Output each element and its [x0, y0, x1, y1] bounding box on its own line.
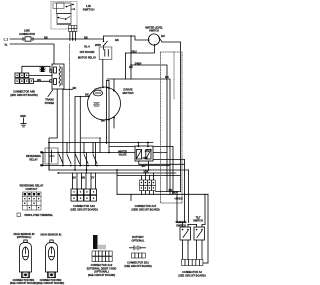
relay contact K2 [67, 155, 71, 164]
svg-text:24V: 24V [145, 149, 150, 153]
wire service switch lead 2 [187, 240, 189, 260]
svg-text:BK: BK [85, 93, 89, 97]
svg-text:(OPTIONAL): (OPTIONAL) [17, 236, 32, 239]
lid switch contacts [57, 3, 75, 24]
svg-text:(SEE CIRCUIT BOARD): (SEE CIRCUIT BOARD) [88, 274, 116, 277]
wire to service switch [184, 160, 186, 223]
svg-text:(SIDE CIRCUIT BOARD): (SIDE CIRCUIT BOARD) [131, 208, 159, 211]
svg-text:GY: GY [91, 176, 95, 180]
wire mesh vertical x84 [83, 143, 85, 153]
svg-text:L1: L1 [4, 37, 9, 42]
wire to board right [110, 146, 173, 148]
transformer leads down [49, 89, 57, 170]
svg-text:=INSULATED TERMINAL: =INSULATED TERMINAL [24, 214, 54, 217]
wire tilt switch lead 2 [201, 240, 203, 260]
rl-6 relay coil dashed box [99, 47, 112, 60]
junction dots mesh [48, 142, 110, 174]
svg-text:(SEE CIRCUIT BOARD): (SEE CIRCUIT BOARD) [70, 208, 98, 211]
svg-text:SWITCH: SWITCH [83, 8, 95, 12]
rotated text bar AA2 [93, 235, 98, 249]
motor bottom leads [113, 118, 115, 128]
svg-text:BU: BU [142, 164, 146, 168]
svg-text:BU: BU [161, 34, 165, 38]
wire bus y170 [49, 169, 189, 171]
svg-text:HIGH SENSOR #1: HIGH SENSOR #1 [41, 233, 63, 236]
relay contact K5 [93, 155, 97, 164]
svg-text:RL-6: RL-6 [84, 46, 90, 49]
tilt switch box [194, 227, 205, 240]
water valve [135, 146, 153, 161]
lid switch inner dashed box [53, 3, 64, 9]
lid switch connector block [69, 26, 77, 32]
wire +5VDC to right edge [117, 193, 208, 195]
wire y79 [107, 79, 170, 194]
reversing relay dashed box [45, 148, 58, 164]
svg-text:WDG: WDG [94, 106, 99, 108]
wire AA3 pin 5 [90, 173, 92, 189]
svg-text:BK: BK [44, 36, 48, 40]
tube sensor 2 [46, 240, 58, 278]
wire relay contact bus top [43, 152, 167, 154]
connector A-M wires [22, 66, 52, 73]
svg-text:+5VDC: +5VDC [174, 196, 183, 200]
wire wls bottom [126, 45, 155, 53]
wire AA3 pin 3 [81, 173, 83, 189]
battery symbol [130, 246, 146, 250]
lid switch pin stubs [69, 32, 71, 41]
lid switch assembly dotted box [51, 2, 77, 30]
connector AA2 block [92, 251, 112, 262]
water level switch [148, 34, 159, 45]
svg-text:GND: GND [20, 114, 26, 118]
wire bus y175 [117, 175, 180, 177]
tube sensor 1 [20, 240, 32, 278]
connector A-M block [15, 73, 34, 83]
connector DD1 block [132, 253, 146, 258]
wire mesh left vertical [42, 153, 44, 166]
svg-text:250V: 250V [95, 43, 101, 47]
wire BK under AA7 [156, 191, 181, 193]
wire valve return upper [140, 159, 185, 161]
wire service switch lead 1 [182, 240, 184, 260]
wire right edge to connector A4 [207, 194, 209, 263]
svg-text:2BN: 2BN [142, 156, 147, 160]
wire AA3 pin 4 [85, 173, 87, 189]
svg-text:N: N [5, 42, 8, 47]
L1 line [10, 38, 104, 40]
dashed board edge vertical left [69, 44, 71, 153]
svg-text:SWITCH: SWITCH [176, 224, 186, 227]
legend insulated terminal [17, 213, 21, 217]
svg-text:BK: BK [101, 119, 105, 123]
trans power leader line [48, 90, 53, 97]
wire AA3 pin 6 [95, 173, 97, 189]
wire mesh vertical x86 [86, 153, 88, 174]
svg-text:MOTOR RELAY: MOTOR RELAY [78, 57, 97, 60]
svg-text:BK: BK [115, 38, 119, 42]
svg-text:CONTACT: CONTACT [25, 188, 38, 191]
wire corner x75 to motor left [75, 97, 89, 171]
wire bus to water valve [49, 142, 153, 144]
motor winding marks [94, 102, 100, 104]
svg-text:VALVE: VALVE [119, 154, 127, 157]
wire vertical x173 [172, 147, 174, 195]
svg-text:(2RD CIRCUIT BOARD): (2RD CIRCUIT BOARD) [10, 94, 38, 97]
svg-text:2BU: 2BU [131, 50, 136, 54]
svg-text:POWER: POWER [45, 102, 55, 105]
wire label marks mesh left [40, 151, 43, 153]
N line [10, 44, 54, 64]
connector A4 block [182, 260, 203, 266]
svg-text:BK: BK [84, 36, 88, 40]
wire to tilt switch [188, 170, 190, 223]
svg-text:(SEE CIRCUIT BOARD): (SEE CIRCUIT BOARD) [178, 274, 206, 277]
wire AA3 pin 2 [76, 173, 78, 189]
svg-text:24BN: 24BN [135, 62, 142, 66]
wire mesh vertical x95 [94, 143, 96, 166]
wire mid right down [116, 170, 118, 194]
svg-text:OFF BOARD: OFF BOARD [80, 51, 95, 54]
wire BK right of transformer [63, 88, 73, 90]
svg-text:SWITCH: SWITCH [193, 219, 203, 222]
reversing relay contact table [23, 192, 42, 210]
svg-text:RELAY: RELAY [29, 158, 38, 161]
wire mesh vertical x49 [48, 143, 50, 171]
wire wls right [159, 38, 180, 192]
dashed board outline right [161, 52, 183, 203]
connector AA7 block [140, 180, 156, 191]
svg-text:BN: BN [37, 78, 41, 82]
connector AA3 block [71, 189, 97, 201]
wire bus y173 [58, 172, 176, 174]
wire relay top to water level switch [104, 36, 149, 40]
wire 24BN [130, 36, 132, 79]
svg-text:MOTOR: MOTOR [122, 91, 134, 95]
relay contact K1 [59, 155, 63, 164]
wire mesh vertical x93 [92, 143, 94, 153]
service switch box [180, 227, 191, 240]
svg-text:BK: BK [165, 75, 169, 79]
svg-text:(SEE CIRCUIT BOARD): (SEE CIRCUIT BOARD) [124, 265, 152, 268]
line connector symbol [25, 37, 31, 41]
relay contact K4 [84, 155, 88, 164]
svg-text:BN: BN [81, 176, 85, 180]
svg-text:SWITCH: SWITCH [149, 30, 159, 33]
svg-text:CONNECTOR: CONNECTOR [19, 33, 35, 36]
svg-text:BK: BK [73, 86, 77, 90]
transformer box [52, 64, 64, 89]
svg-text:OPTIONAL: OPTIONAL [132, 239, 145, 242]
svg-text:BK: BK [129, 65, 133, 69]
svg-text:BK/R: BK/R [172, 191, 178, 195]
valve bottom leads [139, 161, 185, 164]
svg-text:2BK: 2BK [143, 169, 148, 173]
drive motor [88, 87, 121, 120]
relay contact K3 [76, 155, 80, 164]
rl-6 relay contact [103, 36, 105, 41]
wire mesh vertical x67 [66, 143, 68, 153]
svg-text:BU: BU [72, 176, 76, 180]
ground [21, 118, 26, 127]
wire tilt switch lead 1 [196, 240, 198, 260]
wire relay contact bus bottom [43, 165, 170, 167]
wire AA3 pin 1 [72, 173, 74, 189]
small boxed labels [40, 67, 45, 69]
